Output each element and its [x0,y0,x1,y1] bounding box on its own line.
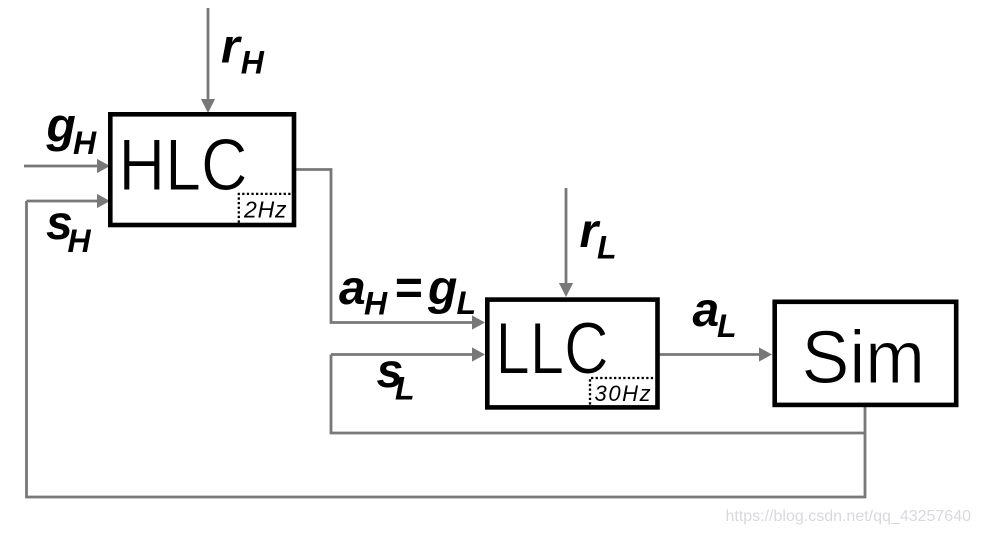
svg-text:30Hz: 30Hz [595,381,653,406]
svg-text:g: g [46,100,76,153]
svg-text:HLC: HLC [119,124,248,206]
svg-text:=: = [394,262,422,315]
svg-text:H: H [364,286,388,322]
svg-text:a: a [693,284,720,337]
svg-text:H: H [73,125,97,161]
svg-text:https://blog.csdn.net/qq_43257: https://blog.csdn.net/qq_43257640 [725,508,971,525]
svg-text:LLC: LLC [496,309,609,390]
svg-text:L: L [717,308,737,344]
svg-text:L: L [395,370,415,406]
svg-text:Sim: Sim [802,315,925,399]
svg-text:L: L [457,285,477,321]
svg-text:H: H [68,223,92,259]
svg-text:L: L [597,229,617,265]
svg-text:2Hz: 2Hz [243,197,287,223]
svg-text:a: a [339,262,366,315]
svg-text:H: H [241,44,265,80]
svg-text:g: g [427,262,457,315]
svg-text:r: r [221,20,242,73]
